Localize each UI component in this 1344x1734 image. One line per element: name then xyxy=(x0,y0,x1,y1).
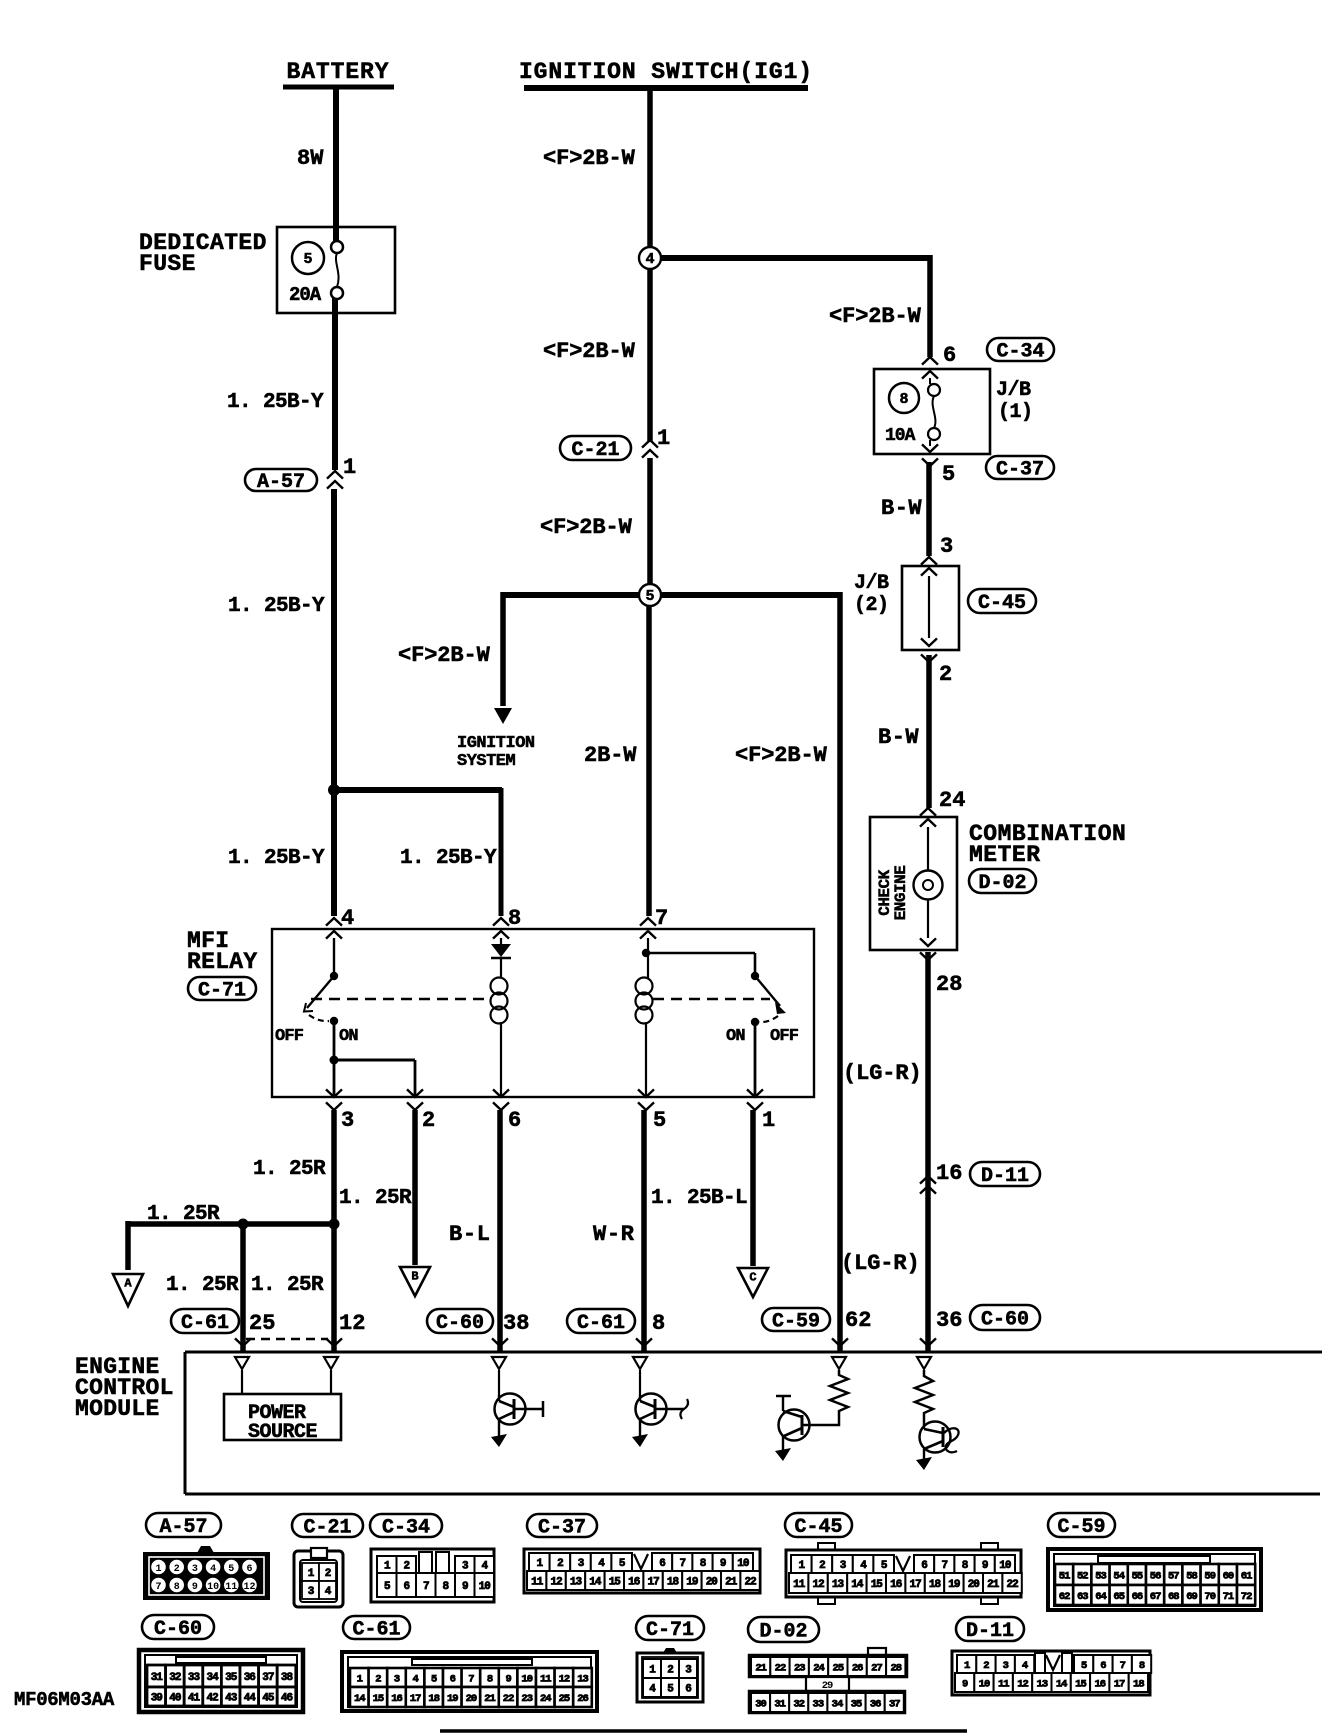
connector table label C-21 xyxy=(292,1514,363,1540)
wire 1.25B-Y to junction xyxy=(331,489,337,792)
svg-text:14: 14 xyxy=(589,1576,602,1588)
relay coil 2 junction xyxy=(642,938,650,978)
svg-text:6: 6 xyxy=(921,1560,927,1572)
label 8W xyxy=(297,146,324,171)
connector table label C-71 xyxy=(636,1616,704,1642)
label <F>2B-W (1) xyxy=(543,146,636,171)
svg-text:21: 21 xyxy=(725,1576,738,1588)
connector C-60 pinout xyxy=(139,1650,303,1712)
svg-text:55: 55 xyxy=(1132,1570,1143,1582)
svg-text:6: 6 xyxy=(450,1673,456,1685)
svg-text:(LG-R): (LG-R) xyxy=(841,1251,920,1276)
svg-text:52: 52 xyxy=(1077,1570,1088,1582)
svg-text:6: 6 xyxy=(659,1558,665,1570)
svg-text:22: 22 xyxy=(775,1662,786,1674)
svg-text:1: 1 xyxy=(657,426,670,451)
connector C-71 pinout xyxy=(637,1648,703,1702)
label 25 xyxy=(249,1311,275,1336)
svg-text:C: C xyxy=(749,1271,756,1285)
svg-text:23: 23 xyxy=(794,1662,805,1674)
svg-text:MF06M03AA: MF06M03AA xyxy=(14,1689,115,1711)
wire relay pin2 to triangle B xyxy=(412,1110,418,1265)
label COMBINATION METER xyxy=(969,821,1126,868)
svg-text:18: 18 xyxy=(1133,1678,1144,1690)
svg-text:56: 56 xyxy=(1150,1570,1161,1582)
svg-text:6: 6 xyxy=(246,1564,252,1575)
svg-text:<F>2B-W: <F>2B-W xyxy=(543,339,636,364)
wire battery 8W xyxy=(333,87,339,242)
label OFF ON (left switch) xyxy=(275,1027,358,1046)
ECM pin 36 triangle xyxy=(917,1357,931,1369)
label <F>2B-W (2) xyxy=(543,339,636,364)
svg-text:18: 18 xyxy=(428,1693,439,1705)
svg-text:C-71: C-71 xyxy=(646,1619,694,1642)
junction block J/B(2) box xyxy=(902,566,959,650)
svg-text:25: 25 xyxy=(559,1693,570,1705)
svg-text:METER: METER xyxy=(969,842,1041,868)
dashed actuation line right xyxy=(653,998,770,1000)
node 4 xyxy=(639,247,661,269)
svg-text:6: 6 xyxy=(943,343,956,368)
footer rule xyxy=(440,1729,967,1733)
svg-text:<F>2B-W: <F>2B-W xyxy=(735,743,828,768)
svg-text:1. 25R: 1. 25R xyxy=(339,1187,412,1210)
svg-text:1: 1 xyxy=(155,1564,161,1575)
relay wire pin 1 xyxy=(754,1022,757,1097)
connector chevrons pin 2 below J/B(2) xyxy=(921,654,952,687)
relay switch 1 (left) xyxy=(304,938,338,1025)
connector C-21 oval xyxy=(560,436,631,462)
svg-text:D-02: D-02 xyxy=(978,872,1026,895)
label MFI RELAY xyxy=(187,928,258,975)
svg-text:35: 35 xyxy=(851,1698,862,1710)
svg-text:C-34: C-34 xyxy=(382,1517,430,1540)
svg-text:10: 10 xyxy=(207,1582,219,1593)
svg-text:2: 2 xyxy=(403,1560,409,1572)
label W-R xyxy=(593,1222,635,1247)
svg-text:5: 5 xyxy=(645,588,654,605)
connector C-37 oval xyxy=(986,456,1054,482)
wire relay pin1 to triangle C (1.25B-L) xyxy=(750,1110,756,1266)
connector table label A-57 xyxy=(146,1513,221,1539)
svg-text:8W: 8W xyxy=(297,146,324,171)
label (LG-R) (2) xyxy=(841,1251,920,1276)
triangle connector B xyxy=(400,1267,430,1296)
connector table label C-45 xyxy=(785,1513,852,1539)
connector D-11 pinout xyxy=(952,1651,1151,1695)
svg-text:13: 13 xyxy=(1037,1678,1048,1690)
label 1.25R (2) xyxy=(339,1187,412,1210)
wire to node 5 xyxy=(647,458,653,595)
node IGNITION SWITCH(IG1) header xyxy=(519,59,813,88)
svg-text:B: B xyxy=(411,1270,418,1284)
svg-text:C-59: C-59 xyxy=(1057,1516,1105,1539)
combination meter box xyxy=(870,817,957,950)
wire relay pin5 to ECM 8 (W-R) xyxy=(641,1110,647,1352)
label ENGINE CONTROL MODULE xyxy=(75,1354,174,1422)
connector A-57 pinout xyxy=(144,1546,269,1599)
svg-text:18: 18 xyxy=(929,1579,942,1591)
svg-text:36: 36 xyxy=(936,1308,962,1333)
connector C-60 oval (pin38) xyxy=(427,1309,493,1335)
connector C-59 pinout xyxy=(1048,1549,1261,1610)
svg-text:J/B: J/B xyxy=(996,379,1031,402)
svg-text:31: 31 xyxy=(774,1698,785,1710)
svg-text:59: 59 xyxy=(1204,1570,1215,1582)
connector A-57 oval xyxy=(245,469,317,494)
relay pin 2 chevrons xyxy=(407,1089,435,1133)
relay pin 6 chevrons xyxy=(493,1089,521,1133)
svg-text:7: 7 xyxy=(468,1673,474,1685)
label 1.25R (4) xyxy=(166,1274,239,1297)
svg-text:2: 2 xyxy=(325,1568,331,1580)
ECM pin 12 triangle xyxy=(324,1357,338,1394)
label ON OFF (right switch) xyxy=(726,1027,799,1046)
svg-text:<F>2B-W: <F>2B-W xyxy=(829,304,922,329)
label 24 xyxy=(939,788,965,813)
svg-text:36: 36 xyxy=(870,1698,881,1710)
svg-text:5: 5 xyxy=(942,462,955,487)
svg-text:4: 4 xyxy=(645,251,654,268)
svg-text:17: 17 xyxy=(1114,1678,1125,1690)
svg-text:2: 2 xyxy=(667,1664,673,1676)
svg-text:46: 46 xyxy=(281,1692,293,1704)
connector chevrons A-57 pin 1 xyxy=(327,455,356,489)
svg-text:69: 69 xyxy=(1186,1591,1197,1603)
label 1.25B-Y (2) xyxy=(228,595,325,618)
svg-text:ON: ON xyxy=(726,1027,745,1046)
relay pin 7 chevrons xyxy=(640,906,668,939)
node BATTERY header xyxy=(283,59,394,87)
svg-text:3: 3 xyxy=(940,534,953,559)
svg-text:2: 2 xyxy=(939,662,952,687)
svg-text:17: 17 xyxy=(647,1576,659,1588)
svg-text:10: 10 xyxy=(979,1678,990,1690)
svg-text:72: 72 xyxy=(1241,1591,1252,1603)
arrow to ignition system xyxy=(494,708,512,724)
node 5 xyxy=(639,584,661,606)
junction node battery/relay xyxy=(328,784,340,796)
connector C-59 oval (pin62) xyxy=(762,1308,830,1334)
connector table label C-60 xyxy=(142,1615,214,1641)
svg-text:45: 45 xyxy=(262,1692,275,1704)
svg-text:61: 61 xyxy=(1241,1570,1252,1582)
diode relay coil 1 xyxy=(491,938,511,958)
connector C-61 oval (pin8) xyxy=(567,1309,635,1335)
lamp check engine xyxy=(914,871,943,900)
svg-text:A: A xyxy=(124,1277,132,1291)
label 36 xyxy=(936,1308,962,1333)
svg-text:15: 15 xyxy=(1075,1678,1086,1690)
svg-text:40: 40 xyxy=(169,1692,181,1704)
svg-text:38: 38 xyxy=(503,1311,529,1336)
svg-text:10: 10 xyxy=(999,1560,1011,1572)
connector chevrons pin 5 C-37 xyxy=(922,440,955,487)
svg-text:16: 16 xyxy=(391,1693,402,1705)
svg-text:16: 16 xyxy=(628,1576,640,1588)
svg-text:17: 17 xyxy=(410,1693,421,1705)
svg-text:21: 21 xyxy=(484,1693,495,1705)
svg-text:1. 25R: 1. 25R xyxy=(251,1274,324,1297)
svg-text:4: 4 xyxy=(412,1673,418,1685)
svg-text:7: 7 xyxy=(1120,1660,1126,1672)
svg-text:13: 13 xyxy=(832,1579,845,1591)
connector D-02 oval xyxy=(969,869,1036,895)
connector C-60 oval (pin36) xyxy=(970,1305,1040,1332)
svg-text:42: 42 xyxy=(206,1692,218,1704)
connector chevrons pin 6 C-34 xyxy=(922,343,956,368)
svg-text:11: 11 xyxy=(540,1673,551,1685)
connector table label C-37 xyxy=(527,1514,597,1540)
svg-text:7: 7 xyxy=(655,906,668,931)
svg-text:19: 19 xyxy=(686,1576,698,1588)
svg-text:C-34: C-34 xyxy=(996,341,1044,364)
svg-text:20: 20 xyxy=(968,1579,980,1591)
label CHECK ENGINE (vertical) xyxy=(876,866,910,921)
svg-text:20: 20 xyxy=(466,1693,477,1705)
svg-text:10: 10 xyxy=(737,1558,749,1570)
wire B-W xyxy=(926,462,932,556)
wire relay pin3 to ECM 12 xyxy=(331,1110,337,1352)
transistor Q4 (pin 36) xyxy=(916,1422,959,1471)
label 1.25R (3) xyxy=(147,1203,220,1226)
svg-text:33: 33 xyxy=(188,1672,201,1684)
module ENGINE CONTROL MODULE box xyxy=(185,1352,1322,1494)
svg-text:11: 11 xyxy=(793,1579,806,1591)
svg-text:28: 28 xyxy=(890,1662,901,1674)
svg-text:2: 2 xyxy=(819,1560,825,1572)
label 1.25B-L xyxy=(651,1187,747,1210)
label 2B-W xyxy=(584,743,637,768)
svg-text:<F>2B-W: <F>2B-W xyxy=(543,146,636,171)
svg-text:1. 25B-Y: 1. 25B-Y xyxy=(227,391,324,414)
svg-text:B-W: B-W xyxy=(881,496,922,521)
svg-text:5: 5 xyxy=(653,1108,666,1133)
label <F>2B-W (5) xyxy=(735,743,828,768)
svg-text:12: 12 xyxy=(812,1579,824,1591)
svg-text:C-45: C-45 xyxy=(978,592,1026,615)
svg-text:9: 9 xyxy=(982,1560,988,1572)
label B-L xyxy=(449,1222,491,1247)
svg-text:22: 22 xyxy=(744,1576,756,1588)
svg-text:SOURCE: SOURCE xyxy=(248,1421,318,1444)
svg-text:12: 12 xyxy=(339,1311,365,1336)
svg-text:3: 3 xyxy=(192,1564,198,1575)
svg-text:5: 5 xyxy=(431,1673,437,1685)
svg-text:8: 8 xyxy=(652,1311,665,1336)
dashed line pins 25-12 xyxy=(246,1338,328,1340)
wire ignition node5 down to relay pin 7 xyxy=(646,595,652,916)
svg-text:62: 62 xyxy=(1059,1591,1070,1603)
svg-text:37: 37 xyxy=(262,1672,274,1684)
svg-text:OFF: OFF xyxy=(770,1027,799,1046)
svg-text:<F>2B-W: <F>2B-W xyxy=(540,515,633,540)
svg-text:1: 1 xyxy=(357,1673,363,1685)
svg-text:(1): (1) xyxy=(998,401,1033,424)
svg-text:24: 24 xyxy=(540,1693,551,1705)
svg-text:43: 43 xyxy=(225,1692,238,1704)
svg-text:6: 6 xyxy=(1100,1660,1106,1672)
svg-text:10: 10 xyxy=(479,1581,491,1593)
svg-text:51: 51 xyxy=(1059,1570,1070,1582)
connector C-61 oval (pin25) xyxy=(171,1309,239,1335)
svg-text:24: 24 xyxy=(939,788,965,813)
wire horizontal 1.25R to A xyxy=(128,1219,340,1271)
relay pin 1 chevrons xyxy=(747,1089,775,1133)
label B-W xyxy=(881,496,922,521)
wire ignition switch xyxy=(647,88,653,248)
resistor R2 (pin 36) xyxy=(915,1370,933,1422)
svg-text:64: 64 xyxy=(1095,1591,1106,1603)
svg-text:7: 7 xyxy=(155,1582,161,1593)
svg-text:68: 68 xyxy=(1168,1591,1179,1603)
svg-text:4: 4 xyxy=(210,1564,216,1575)
svg-text:44: 44 xyxy=(244,1692,257,1704)
ECM pin chevrons xyxy=(235,1338,936,1346)
svg-text:A-57: A-57 xyxy=(257,471,305,494)
svg-text:57: 57 xyxy=(1168,1570,1179,1582)
svg-text:53: 53 xyxy=(1095,1570,1106,1582)
relay switch 2 (right) xyxy=(646,953,786,1026)
svg-text:12: 12 xyxy=(243,1582,255,1593)
svg-text:34: 34 xyxy=(832,1698,843,1710)
svg-text:8: 8 xyxy=(508,906,521,931)
svg-text:63: 63 xyxy=(1077,1591,1088,1603)
svg-text:12: 12 xyxy=(559,1673,570,1685)
svg-text:9: 9 xyxy=(720,1558,726,1570)
fuse 10A inside J/B(1) xyxy=(885,378,940,446)
svg-text:19: 19 xyxy=(948,1579,960,1591)
svg-text:65: 65 xyxy=(1113,1591,1124,1603)
svg-text:25: 25 xyxy=(249,1311,275,1336)
power source box xyxy=(224,1394,341,1444)
connector D-11 oval xyxy=(970,1162,1040,1188)
svg-text:16: 16 xyxy=(890,1579,902,1591)
svg-text:C-60: C-60 xyxy=(154,1618,202,1641)
svg-text:7: 7 xyxy=(423,1581,429,1593)
svg-text:6: 6 xyxy=(685,1683,691,1695)
label 62 xyxy=(845,1308,871,1333)
svg-text:33: 33 xyxy=(813,1698,824,1710)
connector chevrons pin 28 below meter xyxy=(920,952,962,997)
svg-text:27: 27 xyxy=(871,1662,882,1674)
connector C-71 oval xyxy=(188,977,256,1003)
svg-text:1. 25B-Y: 1. 25B-Y xyxy=(228,847,325,870)
svg-text:39: 39 xyxy=(151,1692,163,1704)
connector table label D-11 xyxy=(956,1617,1024,1643)
label 1.25R (1) xyxy=(253,1158,326,1181)
connector table label D-02 xyxy=(748,1617,819,1644)
triangle connector A xyxy=(113,1274,143,1306)
svg-text:1. 25B-Y: 1. 25B-Y xyxy=(228,595,325,618)
svg-text:C-61: C-61 xyxy=(577,1312,625,1335)
wire ignition node4 down xyxy=(647,258,653,442)
svg-text:16: 16 xyxy=(1094,1678,1105,1690)
svg-text:13: 13 xyxy=(577,1673,588,1685)
wire LG-R meter to ECM 36 xyxy=(925,952,931,1352)
connector chevrons pin 24 meter xyxy=(920,808,936,816)
svg-text:B-L: B-L xyxy=(449,1222,491,1247)
relay pin 8 chevrons xyxy=(493,906,521,939)
svg-text:15: 15 xyxy=(373,1693,384,1705)
svg-text:1. 25R: 1. 25R xyxy=(253,1158,326,1181)
ECM pin 8 triangle xyxy=(633,1357,647,1395)
svg-text:2: 2 xyxy=(983,1660,989,1672)
coil 1 xyxy=(491,958,508,1097)
label (LG-R) xyxy=(843,1061,922,1086)
coil 2 xyxy=(636,978,653,1098)
svg-text:IGNITION SWITCH(IG1): IGNITION SWITCH(IG1) xyxy=(519,59,813,85)
svg-text:2: 2 xyxy=(422,1108,435,1133)
fuse box DEDICATED FUSE 20A xyxy=(277,227,395,313)
svg-text:32: 32 xyxy=(793,1698,804,1710)
label J/B (2) xyxy=(854,572,889,617)
svg-text:ENGINE: ENGINE xyxy=(892,866,910,921)
label 1.25R (5) xyxy=(251,1274,324,1297)
svg-text:2: 2 xyxy=(375,1673,381,1685)
label <F>2B-W (6) xyxy=(829,304,922,329)
connector table label C-61 xyxy=(343,1616,410,1642)
connector C-61 pinout xyxy=(342,1652,597,1711)
svg-text:B-W: B-W xyxy=(878,725,919,750)
svg-text:(LG-R): (LG-R) xyxy=(843,1061,922,1086)
svg-text:62: 62 xyxy=(845,1308,871,1333)
svg-text:20: 20 xyxy=(706,1576,718,1588)
svg-text:D-11: D-11 xyxy=(966,1620,1014,1643)
svg-text:1. 25R: 1. 25R xyxy=(166,1274,239,1297)
svg-text:17: 17 xyxy=(909,1579,921,1591)
label <F>2B-W (3) xyxy=(540,515,633,540)
svg-text:26: 26 xyxy=(577,1693,588,1705)
svg-text:60: 60 xyxy=(1223,1570,1234,1582)
svg-text:70: 70 xyxy=(1204,1591,1215,1603)
relay MFI RELAY box xyxy=(272,929,814,1097)
svg-text:23: 23 xyxy=(521,1693,532,1705)
svg-text:5: 5 xyxy=(1081,1660,1087,1672)
svg-text:1: 1 xyxy=(343,455,356,480)
wire battery to relay pin 4 xyxy=(331,790,337,916)
svg-text:9: 9 xyxy=(192,1582,198,1593)
svg-text:34: 34 xyxy=(206,1672,219,1684)
svg-text:67: 67 xyxy=(1150,1591,1161,1603)
label IGNITION SYSTEM xyxy=(457,734,535,771)
label 1.25B-Y xyxy=(227,391,324,414)
svg-text:C-60: C-60 xyxy=(981,1309,1029,1332)
svg-text:5: 5 xyxy=(303,251,312,268)
svg-text:9: 9 xyxy=(505,1673,511,1685)
svg-text:BATTERY: BATTERY xyxy=(287,59,390,85)
svg-text:16: 16 xyxy=(936,1161,962,1186)
svg-text:C-59: C-59 xyxy=(772,1311,820,1334)
wire relay pin6 to ECM 38 (B-L) xyxy=(497,1110,503,1352)
svg-text:3: 3 xyxy=(394,1673,400,1685)
svg-text:66: 66 xyxy=(1132,1591,1143,1603)
resistor R1 (pin 62) xyxy=(803,1370,848,1425)
svg-text:20A: 20A xyxy=(289,284,322,306)
svg-text:IGNITION: IGNITION xyxy=(457,734,535,753)
svg-text:OFF: OFF xyxy=(275,1027,304,1046)
svg-text:7: 7 xyxy=(941,1560,947,1572)
connector C-21 pinout xyxy=(294,1548,343,1607)
svg-text:3: 3 xyxy=(1003,1660,1009,1672)
label <F>2B-W (4) xyxy=(398,643,491,668)
relay pin 3 chevrons xyxy=(326,1089,354,1133)
svg-text:37: 37 xyxy=(889,1698,900,1710)
svg-text:4: 4 xyxy=(341,906,354,931)
svg-text:31: 31 xyxy=(151,1672,164,1684)
svg-text:D-02: D-02 xyxy=(759,1621,807,1644)
svg-text:14: 14 xyxy=(1056,1678,1067,1690)
